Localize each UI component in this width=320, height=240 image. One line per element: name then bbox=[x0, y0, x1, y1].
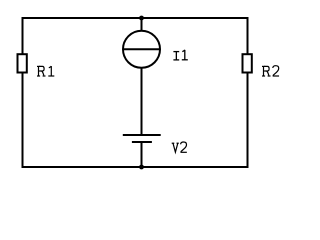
current source I1 bbox=[123, 31, 161, 68]
wire: right vertical upper bbox=[247, 17, 249, 54]
resistor R1 bbox=[18, 54, 27, 72]
wire: top horizontal bbox=[22, 17, 249, 19]
label I1 bbox=[173, 50, 187, 60]
wire: left vertical lower bbox=[22, 73, 24, 168]
node: bottom junction dot bbox=[139, 165, 144, 170]
label R2 bbox=[262, 66, 279, 76]
wire: stub from top node to current source bbox=[141, 18, 143, 31]
wire: battery to bottom node bbox=[141, 142, 143, 167]
label V2 bbox=[172, 142, 187, 152]
wire: bottom horizontal bbox=[22, 166, 249, 168]
wire: right vertical lower bbox=[247, 73, 249, 168]
label R1 bbox=[37, 66, 54, 76]
resistor R2 bbox=[243, 54, 252, 72]
node: top junction dot bbox=[139, 16, 144, 21]
wire: left vertical upper bbox=[22, 17, 24, 54]
battery V2 bbox=[123, 135, 161, 142]
wire: current source to battery bbox=[141, 69, 143, 136]
